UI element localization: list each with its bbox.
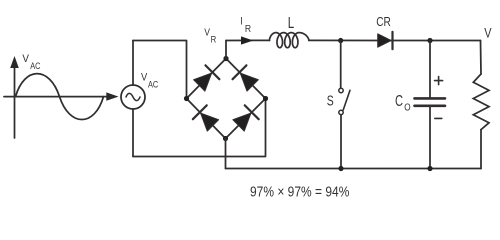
label plus — [435, 77, 443, 85]
capacitor CO plates — [415, 98, 446, 105]
wire bridge top to rail — [225, 41, 227, 59]
wire switch top — [340, 41, 342, 89]
svg-text:97% × 97% = 94%: 97% × 97% = 94% — [250, 183, 349, 200]
label V_R — [204, 27, 216, 45]
svg-text:V: V — [141, 72, 147, 84]
label S — [327, 93, 334, 109]
svg-text:I: I — [240, 16, 243, 28]
wire bridge bottom to rail — [225, 139, 227, 169]
node bridge right — [263, 96, 268, 101]
svg-text:AC: AC — [30, 61, 40, 71]
svg-text:O: O — [404, 100, 410, 112]
node bridge bottom — [223, 136, 228, 141]
wire right rail bottom — [480, 130, 482, 169]
diode D2 (bridge top-right) — [233, 65, 260, 92]
sine waveform — [16, 74, 104, 120]
node bridge left — [184, 96, 189, 101]
wire source top — [132, 41, 134, 86]
label CR — [376, 15, 391, 29]
label minus — [435, 117, 442, 119]
label C_O — [395, 92, 411, 113]
svg-text:S: S — [327, 93, 334, 109]
diode CR — [378, 32, 393, 49]
switch S — [339, 88, 350, 114]
wire source loop top — [133, 41, 187, 99]
sine plot vertical axis — [10, 56, 19, 138]
svg-text:R: R — [245, 23, 251, 35]
diode D4 (bridge bottom-right) — [232, 105, 259, 132]
svg-text:AC: AC — [148, 80, 158, 90]
svg-text:L: L — [288, 13, 295, 31]
svg-text:V: V — [22, 54, 29, 66]
svg-text:R: R — [211, 34, 217, 45]
resistor R load — [473, 74, 489, 130]
label L — [288, 13, 295, 31]
label equation 97% x 97% = 94% — [250, 183, 349, 200]
node bridge top — [223, 56, 228, 61]
label I_R — [240, 16, 251, 35]
label V (output) — [484, 25, 492, 41]
svg-text:C: C — [395, 92, 403, 109]
wire source loop bottom — [133, 99, 266, 157]
wire switch bottom — [340, 115, 342, 169]
wire source bottom — [132, 109, 134, 157]
label V_AC (plot) — [22, 54, 40, 71]
wire capacitor top — [429, 41, 431, 98]
node bottom rail / switch — [338, 166, 343, 171]
diode D3 (bridge bottom-left) — [193, 105, 220, 132]
top rail wire left of coil — [226, 39, 270, 41]
wire right rail top — [480, 41, 483, 75]
node top rail / switch — [338, 38, 343, 43]
inductor L coil — [269, 33, 309, 48]
AC source V1 — [121, 85, 145, 109]
svg-text:V: V — [484, 25, 492, 41]
current arrow I_R — [241, 36, 253, 44]
sine plot horizontal axis — [4, 92, 119, 100]
diode D1 (bridge top-left) — [192, 65, 219, 92]
node bottom rail / capacitor — [427, 166, 432, 171]
bottom rail wire — [226, 168, 482, 170]
label V_AC (source) — [141, 72, 158, 90]
wire capacitor bottom — [429, 107, 431, 169]
svg-text:V: V — [204, 27, 210, 39]
top rail wire right of coil — [309, 39, 481, 41]
node top rail / capacitor — [427, 38, 432, 43]
svg-text:CR: CR — [376, 15, 391, 29]
bridge diamond wires — [187, 59, 266, 139]
